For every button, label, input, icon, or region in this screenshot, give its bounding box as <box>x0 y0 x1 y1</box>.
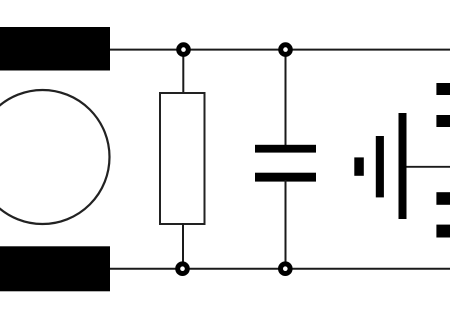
source terminal block (top, solid) <box>0 27 110 71</box>
ground symbol (rotated 90deg): short bar <box>354 157 364 175</box>
capacitor C2 plate 1 (clipped at right edge) <box>436 83 450 95</box>
junction: top rail / resistor branch <box>176 42 191 57</box>
capacitor C3 plate 1 (clipped at right edge) <box>436 192 450 205</box>
wire: top rail <box>109 49 450 51</box>
wire: resistor upper lead <box>182 50 184 94</box>
source terminal block (bottom, solid) <box>0 246 110 291</box>
junction: bottom rail / capacitor branch <box>278 261 293 276</box>
wire: capacitor upper lead <box>285 50 287 146</box>
capacitor C2 plate 2 (clipped at right edge) <box>436 115 450 127</box>
wire: resistor lower lead <box>182 223 184 269</box>
wire: bottom rail <box>109 268 450 270</box>
ground symbol: middle bar <box>376 136 384 197</box>
capacitor C1 plate (top) <box>255 145 316 153</box>
capacitor C1 plate (bottom) <box>255 173 316 182</box>
AC source G1 (circle, clipped at left edge) <box>0 90 110 224</box>
capacitor C3 plate 2 (clipped at right edge) <box>436 225 450 238</box>
wire: capacitor lower lead <box>285 180 287 269</box>
junction: top rail / capacitor branch <box>278 42 293 57</box>
resistor R1 <box>160 93 205 224</box>
junction: bottom rail / resistor branch <box>175 261 190 276</box>
wire: ground lead <box>407 166 450 168</box>
ground symbol: long bar <box>399 113 407 219</box>
